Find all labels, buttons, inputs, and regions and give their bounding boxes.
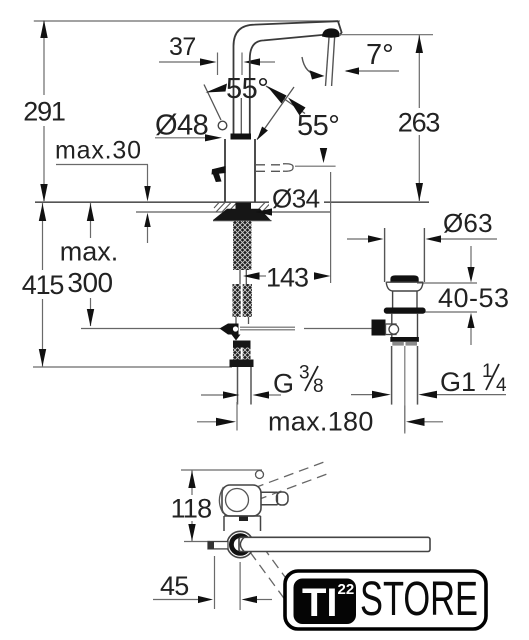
drain center line — [404, 346, 406, 432]
extension line max180 right — [404, 406, 406, 434]
dashed swing upper line a — [254, 462, 324, 488]
drain tailpiece wall left — [384, 228, 386, 282]
leader diameter 48 — [155, 137, 206, 139]
leader max.30 vertical — [147, 165, 149, 187]
arrow 55deg-2 at body corner — [257, 127, 268, 141]
hose core lines lower — [236, 317, 249, 324]
arrow up 415 — [39, 204, 46, 222]
drain tailpiece wall right — [423, 228, 425, 282]
spout bar plan — [239, 537, 430, 551]
lever grip end cap — [277, 492, 289, 505]
shank dark through deck — [236, 203, 252, 222]
dimension 40-53 upper shaft — [470, 246, 472, 268]
spout bar left cap arc — [240, 538, 244, 552]
plan body top line — [224, 515, 261, 517]
arrow right diameter 48 — [205, 134, 222, 141]
dimension G114 shaft left — [351, 394, 373, 396]
arrow down 263 — [416, 183, 423, 201]
svg-text:TI: TI — [302, 581, 338, 625]
hose lower braid gap — [241, 348, 243, 360]
extension line 263 top — [339, 34, 433, 36]
lever knob circle dashed position — [218, 121, 227, 130]
svg-text:55°: 55° — [297, 110, 339, 142]
arrow 7deg arc end — [310, 70, 325, 79]
dimension G114 shaft right — [437, 394, 506, 396]
lever dashed position lower line — [256, 170, 281, 172]
leader diameter 34 — [271, 211, 331, 213]
plan body right edge — [260, 516, 262, 531]
arrow right dia63 — [368, 235, 384, 242]
arrow up max.300 — [87, 204, 94, 222]
svg-text:263: 263 — [398, 108, 440, 138]
arrow bowtie lower — [288, 98, 306, 116]
arrow right G38 — [223, 391, 240, 398]
svg-text:G1: G1 — [440, 367, 476, 397]
arrow left G114 — [418, 391, 437, 399]
hose lower nut band — [233, 341, 251, 348]
wire vertical extension from outlet — [330, 172, 332, 283]
svg-text:7°: 7° — [366, 39, 394, 71]
aerator tip — [322, 28, 340, 37]
wire hose-end reference line — [33, 366, 232, 368]
plan view top extension line — [181, 469, 262, 471]
wire max.30 lower shaft — [147, 227, 149, 243]
arrow left 7deg — [345, 67, 360, 74]
dimension G38 shaft right — [269, 394, 281, 396]
stub extension line — [184, 541, 210, 543]
rod connector block — [372, 320, 386, 336]
wire 55deg-1 axis — [266, 86, 305, 114]
svg-text:Ø48: Ø48 — [155, 110, 208, 142]
dimension 37 line right — [260, 61, 275, 63]
arrow left 45 — [242, 596, 258, 603]
arrow right G114 — [372, 391, 391, 399]
arc 7deg — [302, 57, 319, 76]
arrow down 118 — [188, 524, 195, 541]
dimension dia63 shaft left — [347, 238, 369, 240]
deck stub plan — [208, 542, 228, 549]
hose braid middle — [233, 284, 253, 317]
svg-text:Ø63: Ø63 — [443, 208, 493, 238]
svg-text:max.: max. — [60, 237, 119, 267]
dimension 143 arrow right — [314, 272, 331, 280]
extension line max180 left — [236, 402, 238, 431]
faucet spout inner edge — [250, 35, 323, 134]
threaded shank braid — [233, 221, 252, 270]
drain tail pipe right — [417, 346, 419, 405]
lever cap inner circle — [226, 489, 249, 512]
deck hatching left — [214, 203, 237, 213]
svg-text:291: 291 — [23, 97, 65, 127]
lever handle solid — [212, 166, 226, 182]
arrow right max180 — [216, 418, 236, 426]
lever tip curl plan — [256, 471, 264, 479]
arrow left 37 — [244, 58, 261, 65]
leader max.30 underline — [56, 164, 148, 166]
svg-text:55°: 55° — [226, 73, 268, 105]
arrow up 40-53 — [467, 313, 474, 328]
rod connector ball — [389, 325, 399, 335]
pop-up rod right segment — [304, 328, 372, 330]
faucet spout end face — [338, 21, 342, 35]
svg-text:4: 4 — [496, 375, 507, 396]
arrow right 37 — [200, 58, 217, 65]
svg-text:3: 3 — [299, 363, 310, 384]
arrow left max180 — [406, 418, 425, 426]
dimension 143 shaft left — [260, 275, 267, 277]
deck bottom line — [136, 211, 331, 213]
lever grip end inner line — [277, 492, 279, 505]
svg-text:415: 415 — [22, 270, 64, 300]
wire lever extension right — [295, 165, 336, 167]
rod junction pivot hole — [233, 326, 238, 331]
svg-text:Ø34: Ø34 — [272, 184, 320, 214]
arrow up 118 — [188, 471, 195, 489]
water stream line left — [326, 38, 330, 87]
drain flange — [386, 282, 423, 291]
dimension 291 vertical line — [43, 21, 45, 201]
hose core lines upper — [240, 270, 246, 284]
deck top line — [35, 201, 429, 203]
svg-text:118: 118 — [171, 494, 212, 524]
deck stub dark end — [208, 542, 214, 549]
label G 3/8 — [273, 363, 324, 399]
leader 7deg horizontal — [346, 70, 399, 72]
mounting nut left — [213, 209, 236, 220]
lever dashed position upper line — [256, 164, 281, 166]
drain gray collar left — [392, 342, 404, 346]
water stream line right — [332, 38, 335, 87]
dimension max180 shaft right — [425, 421, 444, 423]
hose lower braid — [233, 348, 251, 360]
svg-text:STORE: STORE — [360, 573, 478, 626]
svg-text:max.180: max.180 — [268, 407, 374, 437]
arrow left G38 — [253, 391, 270, 398]
pop-up rod left — [81, 328, 220, 330]
arrow up 263 — [416, 35, 423, 53]
extension 45 left — [214, 556, 216, 609]
svg-text:37: 37 — [169, 33, 196, 61]
tick 37 right — [241, 53, 243, 76]
arrow down max.300 — [87, 309, 94, 327]
faucet spout outer edge — [234, 21, 339, 134]
lever cap plan outline — [222, 485, 261, 516]
dimension G38 shaft left — [201, 394, 224, 396]
mounting ring outer circle — [227, 531, 253, 557]
rod junction coupler — [220, 324, 239, 335]
arrow up max.30 below deck — [144, 213, 150, 227]
dimension dia63 shaft right — [441, 238, 497, 240]
arrow 55deg-1 left — [206, 84, 228, 93]
extension 40-53 lower — [424, 311, 477, 313]
logo TI22 STORE — [285, 571, 486, 629]
deck hatching right — [256, 203, 274, 213]
faucet body left edge — [224, 139, 226, 202]
svg-text:22: 22 — [338, 581, 355, 598]
dimension 45 shaft left — [153, 599, 199, 601]
drain tail pipe left — [391, 346, 393, 405]
lever grip plan — [261, 492, 278, 505]
dimension max180 shaft left — [197, 421, 217, 423]
arrow down 40-53 — [467, 267, 474, 283]
dimension 263 vertical line — [418, 35, 420, 201]
drain body bottom nut — [390, 337, 419, 342]
drain gray collar right — [406, 342, 418, 346]
arrow down 415 — [39, 349, 46, 367]
svg-text:45: 45 — [160, 571, 188, 601]
arrow up 291 — [40, 20, 47, 38]
wire 55deg-1 crossing — [257, 87, 294, 140]
slash G38 — [305, 366, 318, 391]
hose braid middle gap — [241, 284, 243, 317]
rod junction lower tip — [232, 335, 241, 341]
svg-text:300: 300 — [67, 267, 112, 298]
wire top extension line (291 upper reference) — [34, 20, 340, 22]
arrow right 45 — [198, 596, 213, 603]
slash G114 — [486, 364, 499, 390]
svg-text:40-53: 40-53 — [438, 283, 510, 313]
dimension 37 line left — [159, 61, 202, 63]
faucet body top joint band — [231, 134, 252, 140]
rod connector housing — [386, 324, 397, 335]
hose end fitting band — [230, 360, 254, 368]
dashed swing lower line a — [250, 552, 297, 616]
drain clamp ring — [384, 308, 426, 314]
label diameter 34 — [269, 184, 324, 214]
lever cap left arc — [219, 487, 223, 513]
mounting ring thick ring — [231, 536, 249, 554]
dimension max.300 vertical line — [90, 203, 92, 326]
arrow left dia63 — [426, 235, 442, 242]
arrow down 291 — [40, 184, 47, 202]
faucet spout neck inner line — [240, 98, 242, 134]
dimension 143 arrow left — [243, 272, 260, 280]
arrow down 55deg-2 — [320, 148, 327, 163]
supply pipe left — [237, 367, 239, 405]
lever dashed end cap — [283, 164, 293, 172]
drain neck walls — [393, 291, 417, 308]
extension 45 right — [239, 562, 241, 610]
mounting nut right — [250, 209, 271, 220]
arrow bowtie upper — [267, 86, 287, 104]
nut bottom line — [213, 220, 272, 222]
arrow left diameter 34 — [256, 208, 273, 215]
pop-up rod double line — [240, 327, 295, 330]
arrow down max.30 — [144, 186, 150, 202]
dimension 118 vertical — [191, 470, 193, 541]
tick 37 left — [217, 53, 219, 76]
drain pop-up cap — [390, 275, 418, 281]
plan body left edge — [223, 516, 225, 531]
dimension 40-53 lower shaft — [470, 328, 472, 345]
faucet body right edge — [254, 139, 256, 202]
extension 40-53 upper — [417, 282, 477, 284]
svg-text:143: 143 — [266, 263, 308, 293]
label G1 1/4 — [440, 361, 507, 397]
leader 55deg-1 diagonal — [204, 85, 221, 121]
drain body walls — [392, 314, 418, 337]
dimension 415 vertical line — [42, 203, 44, 367]
dimension 45 shaft right — [257, 599, 272, 601]
svg-text:G: G — [273, 369, 294, 399]
plan body dark mark — [239, 517, 248, 522]
supply pipe right — [250, 367, 252, 405]
svg-text:max.30: max.30 — [55, 137, 142, 165]
dashed swing lower line b — [263, 547, 310, 611]
dashed swing upper line b — [257, 474, 327, 500]
svg-text:8: 8 — [313, 376, 324, 397]
